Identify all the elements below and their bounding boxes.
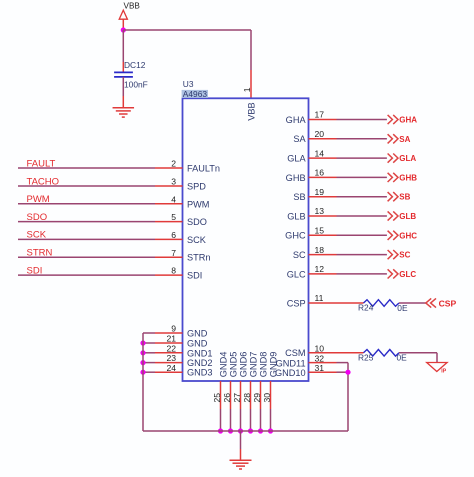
svg-text:GLA: GLA [287, 154, 306, 164]
pin 12 stub [309, 273, 337, 275]
off-page connector GHC [388, 231, 398, 240]
svg-text:GND10: GND10 [275, 368, 306, 378]
pin number 5 [171, 212, 176, 222]
wire R24 to CSP connector [399, 302, 426, 304]
pin number 1 [242, 87, 252, 92]
power symbol IP (down triangle) [427, 363, 447, 372]
wire GND bus to pin 22 [143, 352, 155, 354]
wire ground bus to ground symbol [240, 431, 242, 460]
wire pin 30 to ground bus [270, 409, 272, 431]
pin 7 stub [155, 256, 183, 258]
svg-text:CSP: CSP [287, 298, 306, 308]
svg-text:19: 19 [315, 187, 325, 197]
ground symbol (bottom) [230, 460, 252, 469]
pin 26 stub [230, 381, 232, 409]
wire net PWM [18, 203, 155, 205]
wire net GLC [337, 273, 387, 275]
svg-text:DC12: DC12 [124, 60, 146, 70]
pin 17 stub [309, 119, 337, 121]
pin 23 stub [155, 362, 183, 364]
junction ground bus pin 30 [268, 428, 273, 433]
svg-text:SC: SC [293, 250, 306, 260]
junction ground bus pin 29 [258, 428, 263, 433]
svg-text:GND4: GND4 [219, 352, 229, 378]
pin number 25 [212, 393, 222, 403]
off-page connector GLC [388, 269, 398, 278]
pin 30 stub [270, 381, 272, 409]
svg-text:PWM: PWM [27, 194, 50, 205]
pin number 8 [171, 266, 176, 276]
svg-text:2: 2 [171, 159, 176, 169]
junction ground bus pin 25 [218, 428, 223, 433]
svg-text:12: 12 [315, 264, 325, 274]
svg-text:GHA: GHA [399, 116, 417, 125]
svg-text:GND7: GND7 [249, 352, 259, 378]
svg-text:22: 22 [166, 343, 176, 353]
pin name PWM [187, 199, 209, 209]
svg-text:GND3: GND3 [187, 368, 213, 378]
pin number 29 [252, 393, 262, 403]
net label GHA [399, 116, 417, 125]
pin name FAULTn [187, 164, 220, 174]
svg-text:25: 25 [212, 393, 222, 403]
pin name GND11 [276, 359, 306, 369]
svg-text:15: 15 [315, 226, 325, 236]
pin number 2 [171, 159, 176, 169]
wire GND bus to pin 24 [143, 371, 155, 373]
pin 6 stub [155, 238, 183, 240]
pin name GND7 [249, 352, 259, 378]
svg-text:STRn: STRn [187, 253, 211, 263]
pin name GND9 [269, 352, 279, 378]
svg-text:SDO: SDO [27, 212, 48, 223]
junction ground bus pin 27 [238, 428, 243, 433]
svg-text:GND11: GND11 [276, 359, 306, 369]
svg-text:1: 1 [242, 87, 252, 92]
wire net TACHO [18, 185, 155, 187]
reference U3 [183, 79, 194, 89]
off-page connector CSP [426, 298, 436, 307]
svg-text:16: 16 [315, 168, 325, 178]
pin number 17 [315, 110, 325, 120]
svg-text:10: 10 [315, 344, 325, 354]
pin name GND10 [275, 368, 306, 378]
svg-text:4: 4 [171, 194, 176, 204]
pin 11 stub [309, 302, 337, 304]
pin name SPD [187, 182, 206, 192]
pin number 31 [315, 363, 325, 373]
pin name SC [293, 250, 306, 260]
net label SDI [27, 265, 43, 276]
pin number 28 [242, 393, 252, 403]
pin number 6 [171, 230, 176, 240]
reference R25 [358, 352, 374, 362]
svg-text:CSP: CSP [439, 299, 457, 309]
net label SCK [27, 230, 47, 241]
svg-text:100nF: 100nF [124, 80, 148, 90]
resistor R25 [364, 350, 400, 357]
pin 29 stub [260, 381, 262, 409]
pin 13 stub [309, 215, 337, 217]
net label PWM [27, 194, 50, 205]
svg-text:SB: SB [293, 192, 305, 202]
pin name GLC [287, 269, 306, 279]
value A4963 (highlighted) [182, 89, 208, 99]
svg-text:29: 29 [252, 393, 262, 403]
net label SA [399, 135, 410, 144]
pin name GND [187, 339, 208, 349]
wire net GHA [337, 119, 387, 121]
label DC12 [124, 60, 146, 70]
wire GND bus to pin 21 [143, 342, 155, 344]
off-page connector GHA [388, 115, 398, 124]
svg-text:R24: R24 [358, 303, 374, 313]
off-page connector SB [388, 192, 398, 201]
net label GLA [399, 154, 416, 163]
pin 10 stub [309, 352, 337, 354]
pin 8 stub [155, 274, 183, 276]
svg-text:GND8: GND8 [259, 352, 269, 378]
net label SDO [27, 212, 48, 223]
svg-text:14: 14 [315, 148, 325, 158]
svg-text:3: 3 [171, 177, 176, 187]
net label IP [441, 368, 446, 374]
svg-text:18: 18 [315, 245, 325, 255]
pin 15 stub [309, 234, 337, 236]
pin name SA [293, 134, 306, 144]
svg-text:PWM: PWM [187, 199, 209, 209]
ground symbol (capacitor) [113, 108, 135, 117]
pin name GHC [285, 231, 306, 241]
pin number 18 [315, 245, 325, 255]
svg-text:5: 5 [171, 212, 176, 222]
pin name GLB [287, 211, 305, 221]
wire net SDI [18, 274, 155, 276]
pin name GHA [286, 115, 307, 125]
pin number 20 [315, 129, 325, 139]
pin name GND [187, 329, 208, 339]
pin number 24 [166, 363, 176, 373]
wire net SC [337, 254, 387, 256]
pin number 3 [171, 177, 176, 187]
svg-text:U3: U3 [183, 79, 194, 89]
svg-text:SPD: SPD [187, 182, 206, 192]
svg-text:GLC: GLC [287, 269, 306, 279]
pin number 4 [171, 194, 176, 204]
svg-text:SA: SA [293, 134, 306, 144]
pin number 15 [315, 226, 325, 236]
svg-text:SDO: SDO [187, 217, 207, 227]
svg-text:SDI: SDI [187, 271, 202, 281]
value 0E (R25) [397, 353, 408, 363]
svg-text:27: 27 [232, 393, 242, 403]
wire GND bus to pin 9 [143, 332, 155, 334]
pin name GND1 [187, 348, 213, 358]
pin 16 stub [309, 176, 337, 178]
svg-text:9: 9 [171, 324, 176, 334]
svg-text:IP: IP [441, 368, 446, 374]
svg-text:GLA: GLA [399, 154, 416, 163]
wire GND bus vertical [142, 333, 144, 431]
junction VBB node [121, 27, 126, 32]
pin 25 stub [220, 381, 222, 409]
svg-text:SDI: SDI [27, 265, 43, 276]
power symbol VBB [119, 10, 127, 30]
svg-text:28: 28 [242, 393, 252, 403]
svg-text:CSM: CSM [285, 348, 305, 358]
svg-text:13: 13 [315, 206, 325, 216]
resistor R24 [364, 300, 400, 307]
pin number 26 [222, 393, 232, 403]
svg-text:GHC: GHC [399, 231, 417, 240]
svg-text:21: 21 [166, 334, 176, 344]
pin 3 stub [155, 185, 183, 187]
wire net GHB [337, 176, 387, 178]
pin 9 stub [155, 332, 183, 334]
wire pin 31 to vertical [337, 371, 349, 373]
svg-text:6: 6 [171, 230, 176, 240]
svg-text:31: 31 [315, 363, 325, 373]
junction GND bus pin 21 [140, 340, 145, 345]
svg-text:0E: 0E [397, 353, 408, 363]
junction GND bus pin 24 [140, 370, 145, 375]
pin 31 stub [309, 371, 337, 373]
pin number 16 [315, 168, 325, 178]
svg-text:SC: SC [399, 251, 410, 260]
wire net GLA [337, 157, 387, 159]
junction ground bus pin 26 [228, 428, 233, 433]
pin number 19 [315, 187, 325, 197]
net label STRN [27, 248, 53, 259]
svg-text:GLB: GLB [399, 212, 416, 221]
pin 20 stub [309, 138, 337, 140]
off-page connector GLA [388, 154, 398, 163]
pin number 9 [171, 324, 176, 334]
pin number 11 [315, 293, 324, 303]
pin number 14 [315, 148, 325, 158]
svg-text:TACHO: TACHO [27, 176, 60, 187]
pin 21 stub [155, 342, 183, 344]
wire GND bus to pin 23 [143, 362, 155, 364]
net label GHB [399, 173, 417, 182]
svg-text:GND5: GND5 [229, 352, 239, 378]
svg-text:GND: GND [187, 329, 208, 339]
net label FAULT [27, 158, 56, 169]
wire pin 26 to ground bus [230, 409, 232, 431]
pin 22 stub [155, 352, 183, 354]
svg-text:30: 30 [262, 393, 272, 403]
svg-text:GHA: GHA [286, 115, 307, 125]
pin name SDO [187, 217, 207, 227]
junction GND bus pin 22 [140, 350, 145, 355]
svg-text:VBB: VBB [124, 1, 141, 10]
pin number 12 [315, 264, 325, 274]
wire net SCK [18, 238, 155, 240]
pin number 30 [262, 393, 272, 403]
pin 5 stub [155, 221, 183, 223]
net label GHC [399, 231, 417, 240]
net label SB [399, 193, 410, 202]
svg-text:26: 26 [222, 393, 232, 403]
wire net STRN [18, 256, 155, 258]
svg-text:GND1: GND1 [187, 348, 213, 358]
pin 24 stub [155, 371, 183, 373]
wire pin 25 to ground bus [220, 409, 222, 431]
net label SC [399, 251, 410, 260]
wire net SB [337, 196, 387, 198]
wire net GLB [337, 215, 387, 217]
wire net GHC [337, 234, 387, 236]
pin 18 stub [309, 254, 337, 256]
off-page connector SC [388, 250, 398, 259]
svg-text:SCK: SCK [187, 235, 207, 245]
svg-text:R25: R25 [358, 352, 374, 362]
pin 2 stub [155, 167, 183, 169]
junction ground bus pin 28 [248, 428, 253, 433]
pin name GND4 [219, 352, 229, 378]
wire VBB horizontal [123, 29, 251, 31]
svg-text:A4963: A4963 [183, 89, 208, 99]
net label GLC [399, 270, 416, 279]
svg-text:STRN: STRN [27, 248, 53, 259]
pin name GND8 [259, 352, 269, 378]
wire R25 to IP power symbol [399, 353, 437, 363]
pin name CSP [287, 298, 306, 308]
pin name GLA [287, 154, 306, 164]
svg-text:GLB: GLB [287, 211, 305, 221]
pin name VBB (pin 1) [247, 102, 257, 120]
net label TACHO [27, 176, 60, 187]
svg-text:24: 24 [166, 363, 176, 373]
svg-text:SA: SA [399, 135, 410, 144]
net label GLB [399, 212, 416, 221]
svg-text:8: 8 [171, 266, 176, 276]
reference R24 [358, 303, 374, 313]
off-page connector GLB [388, 211, 398, 220]
svg-text:GND6: GND6 [239, 352, 249, 378]
wire capacitor to ground [122, 77, 124, 108]
junction GND bus pin 23 [140, 360, 145, 365]
wire CSM to R25 [337, 352, 364, 354]
pin number 13 [315, 206, 325, 216]
pin number 32 [315, 353, 325, 363]
pin name GHB [286, 173, 306, 183]
svg-text:7: 7 [171, 248, 176, 258]
pin number 21 [166, 334, 176, 344]
pin 14 stub [309, 157, 337, 159]
svg-text:0E: 0E [397, 303, 408, 313]
value 0E (R24) [397, 303, 408, 313]
svg-text:GHB: GHB [399, 173, 417, 182]
wire pin 27 to ground bus [240, 409, 242, 431]
value 100nF [124, 80, 148, 90]
svg-text:11: 11 [315, 293, 324, 303]
pin name SB [293, 192, 305, 202]
wire pin 29 to ground bus [260, 409, 262, 431]
pin name GND5 [229, 352, 239, 378]
svg-text:FAULTn: FAULTn [187, 164, 220, 174]
svg-text:20: 20 [315, 129, 325, 139]
pin 1 stub [250, 70, 252, 98]
wire pin 28 to ground bus [250, 409, 252, 431]
svg-text:GHC: GHC [285, 231, 306, 241]
wire pin 32 to ground bus [337, 363, 349, 431]
pin name SDI [187, 271, 202, 281]
pin name GND6 [239, 352, 249, 378]
svg-text:GLC: GLC [399, 270, 416, 279]
pin name CSM [285, 348, 305, 358]
junction pin 31 / pin 32 wire [345, 370, 350, 375]
pin name GND2 [187, 358, 213, 368]
pin name STRn [187, 253, 211, 263]
net label CSP [439, 299, 457, 309]
svg-text:32: 32 [315, 353, 325, 363]
svg-text:SCK: SCK [27, 230, 47, 241]
off-page connector GHB [388, 173, 398, 182]
pin number 10 [315, 344, 325, 354]
wire ground bus horizontal [143, 430, 348, 432]
off-page connector SA [388, 134, 398, 143]
svg-text:GHB: GHB [286, 173, 306, 183]
wire VBB to capacitor [122, 30, 124, 72]
wire CSP to R24 [337, 302, 364, 304]
pin number 27 [232, 393, 242, 403]
pin 19 stub [309, 196, 337, 198]
pin number 22 [166, 343, 176, 353]
pin name SCK [187, 235, 207, 245]
svg-text:GND: GND [187, 339, 208, 349]
pin number 7 [171, 248, 176, 258]
svg-text:17: 17 [315, 110, 325, 120]
pin 4 stub [155, 203, 183, 205]
pin 28 stub [250, 381, 252, 409]
pin 27 stub [240, 381, 242, 409]
svg-text:SB: SB [399, 193, 410, 202]
svg-text:GND2: GND2 [187, 358, 213, 368]
svg-text:FAULT: FAULT [27, 158, 56, 169]
svg-text:VBB: VBB [247, 102, 257, 120]
wire net SA [337, 138, 387, 140]
wire VBB vertical to pin 1 [250, 30, 252, 70]
svg-text:23: 23 [166, 353, 176, 363]
capacitor DC12 [114, 72, 133, 77]
pin number 23 [166, 353, 176, 363]
net label VBB [124, 1, 141, 10]
pin name GND3 [187, 368, 213, 378]
wire net SDO [18, 221, 155, 223]
op-amp/driver IC U3 A4963 body [183, 98, 309, 381]
pin 32 stub [309, 362, 337, 364]
wire net FAULT [18, 167, 155, 169]
